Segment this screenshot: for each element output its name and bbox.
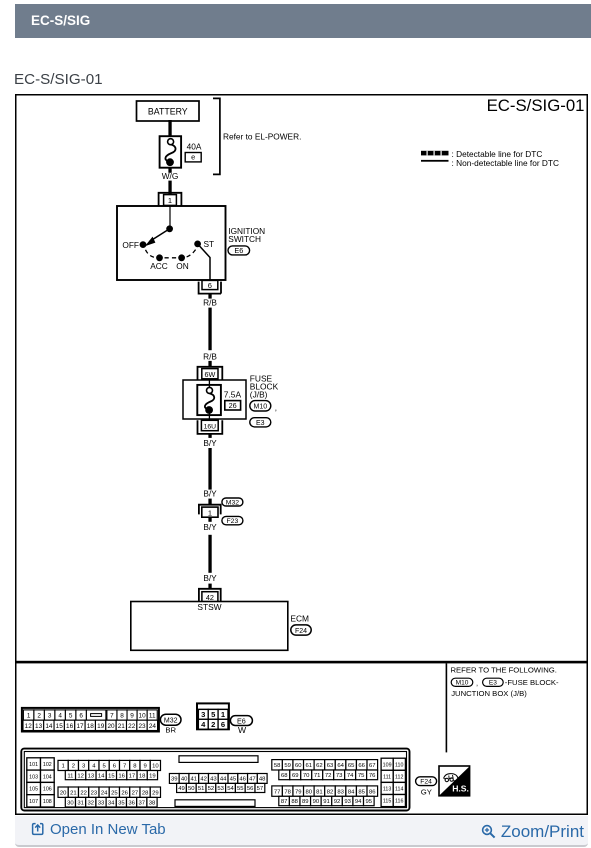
svg-text:46: 46 xyxy=(239,777,246,783)
svg-text:30: 30 xyxy=(67,800,74,806)
svg-text:69: 69 xyxy=(292,773,299,779)
svg-text:13: 13 xyxy=(88,773,95,779)
svg-text:1: 1 xyxy=(208,508,212,517)
wire stub R/B to 6W xyxy=(208,361,211,367)
svg-text:57: 57 xyxy=(257,786,264,792)
svg-text:B/Y: B/Y xyxy=(203,522,217,532)
svg-text:87: 87 xyxy=(281,799,288,805)
svg-text:M32: M32 xyxy=(164,718,178,725)
svg-text:76: 76 xyxy=(369,773,376,779)
connector pin 6 (ignition switch bottom) xyxy=(199,280,221,293)
svg-text:85: 85 xyxy=(358,789,365,795)
svg-text:9: 9 xyxy=(143,764,146,770)
svg-text:18: 18 xyxy=(139,773,146,779)
svg-text:43: 43 xyxy=(210,777,217,783)
svg-text:2: 2 xyxy=(37,713,41,720)
svg-text:16: 16 xyxy=(118,773,125,779)
svg-text:E3: E3 xyxy=(256,420,265,427)
svg-text:SWITCH: SWITCH xyxy=(228,234,261,244)
ECM box xyxy=(131,602,288,651)
svg-text:6: 6 xyxy=(208,281,212,290)
svg-text:75: 75 xyxy=(358,773,365,779)
svg-text:32: 32 xyxy=(88,800,95,806)
svg-text:45: 45 xyxy=(230,777,237,783)
svg-text:1: 1 xyxy=(168,196,172,205)
svg-text:47: 47 xyxy=(249,777,256,783)
contact ST xyxy=(194,241,201,248)
F24 pins 20-38 xyxy=(58,787,68,797)
connector id oval E6 (grid) xyxy=(230,716,252,726)
svg-text:40A: 40A xyxy=(187,141,202,151)
svg-text:50: 50 xyxy=(188,786,195,792)
inline connector pin 1 M32/F23 xyxy=(199,505,221,518)
wire B/Y vertical xyxy=(208,448,211,490)
svg-text:B/Y: B/Y xyxy=(203,489,217,499)
connector pin 6W (fuse block top) xyxy=(198,367,223,380)
connector id oval E3 xyxy=(250,418,271,427)
svg-text:67: 67 xyxy=(369,763,376,769)
svg-text:64: 64 xyxy=(337,763,344,769)
fuse number 26 xyxy=(225,401,241,411)
svg-text:112: 112 xyxy=(395,775,403,781)
svg-text:20: 20 xyxy=(107,723,115,730)
svg-text:2: 2 xyxy=(72,764,75,770)
svg-text:6: 6 xyxy=(79,713,83,720)
wire stub B/Y to pin 42 xyxy=(208,584,211,589)
svg-text:26: 26 xyxy=(121,790,128,796)
ignition switch S1 box xyxy=(117,206,226,280)
svg-text:40: 40 xyxy=(181,777,188,783)
svg-text:16U: 16U xyxy=(204,424,217,431)
svg-text:R/B: R/B xyxy=(203,297,217,307)
svg-text:19: 19 xyxy=(97,723,105,730)
svg-text:35: 35 xyxy=(118,800,125,806)
svg-text:42: 42 xyxy=(206,593,214,602)
svg-text:71: 71 xyxy=(314,773,321,779)
svg-text:80: 80 xyxy=(306,789,313,795)
svg-text:29: 29 xyxy=(152,790,159,796)
svg-text:23: 23 xyxy=(138,723,146,730)
F24 pins 1-19 xyxy=(58,760,68,770)
svg-text:94: 94 xyxy=(355,799,362,805)
svg-text:2: 2 xyxy=(211,720,215,729)
svg-text:11: 11 xyxy=(67,773,73,779)
fuse slot label e xyxy=(185,153,201,162)
svg-text:25: 25 xyxy=(111,790,118,796)
svg-text:116: 116 xyxy=(395,799,403,805)
svg-text:52: 52 xyxy=(208,786,215,792)
svg-text:24: 24 xyxy=(101,790,108,796)
svg-text:W: W xyxy=(238,725,247,735)
connector id oval M32 xyxy=(222,498,243,506)
svg-text:104: 104 xyxy=(43,774,52,780)
svg-text:103: 103 xyxy=(29,774,38,780)
svg-text:7: 7 xyxy=(110,713,114,720)
svg-text:109: 109 xyxy=(383,762,392,768)
F24 pins 77-95 xyxy=(272,786,283,796)
svg-text:90: 90 xyxy=(313,799,320,805)
svg-text:89: 89 xyxy=(302,799,309,805)
zoom/print link xyxy=(481,822,584,842)
svg-text:8: 8 xyxy=(120,713,124,720)
svg-text:F24: F24 xyxy=(295,628,307,635)
connector view E6 pin grid xyxy=(197,703,229,729)
svg-text:7: 7 xyxy=(123,764,126,770)
wire W/G to ignition switch xyxy=(168,167,171,173)
svg-text:20: 20 xyxy=(60,790,67,796)
svg-text:107: 107 xyxy=(29,799,38,805)
svg-text:83: 83 xyxy=(337,789,344,795)
svg-text:28: 28 xyxy=(142,790,149,796)
svg-text:92: 92 xyxy=(334,799,341,805)
svg-text:E6: E6 xyxy=(234,246,243,255)
svg-text:14: 14 xyxy=(98,773,105,779)
svg-text:56: 56 xyxy=(247,786,254,792)
svg-text:113: 113 xyxy=(383,787,391,793)
svg-text:91: 91 xyxy=(323,799,330,805)
svg-text:15: 15 xyxy=(56,723,64,730)
svg-text:101: 101 xyxy=(29,762,38,768)
svg-text:4: 4 xyxy=(58,713,62,720)
svg-text:115: 115 xyxy=(383,799,391,805)
svg-text:26: 26 xyxy=(229,401,237,410)
legend: non-detectable line for DTC xyxy=(421,158,559,168)
svg-text:ON: ON xyxy=(176,261,188,271)
svg-text:31: 31 xyxy=(77,800,84,806)
svg-text:84: 84 xyxy=(348,789,355,795)
svg-text:33: 33 xyxy=(98,800,105,806)
svg-text:E3: E3 xyxy=(489,680,497,687)
svg-text:66: 66 xyxy=(358,763,365,769)
svg-text:105: 105 xyxy=(29,787,38,793)
svg-text:OFF: OFF xyxy=(122,240,139,250)
svg-text:79: 79 xyxy=(295,789,302,795)
svg-text:61: 61 xyxy=(306,763,313,769)
dashed travel arc OFF-ACC-ON-ST xyxy=(146,248,197,258)
connector id oval E6 xyxy=(228,246,250,255)
page header bar EC-S/SIG xyxy=(15,4,591,38)
svg-text:37: 37 xyxy=(139,800,146,806)
svg-text:13: 13 xyxy=(35,723,43,730)
wire stub B/Y to inline connector xyxy=(208,499,211,505)
svg-text:23: 23 xyxy=(91,790,98,796)
legend: detectable line for DTC xyxy=(421,149,542,159)
open in new tab link xyxy=(31,821,166,838)
wire R/B vertical xyxy=(208,308,211,351)
svg-text:78: 78 xyxy=(284,789,291,795)
connector view F24 ECM pin grid xyxy=(21,749,409,811)
svg-text:27: 27 xyxy=(132,790,139,796)
svg-text:3: 3 xyxy=(201,710,205,719)
svg-text:-FUSE BLOCK-: -FUSE BLOCK- xyxy=(505,678,559,687)
wire stub 16U to B/Y xyxy=(208,434,211,438)
svg-text:14: 14 xyxy=(45,723,53,730)
svg-text:ST: ST xyxy=(204,239,215,249)
svg-text:59: 59 xyxy=(284,763,291,769)
separator line xyxy=(15,661,588,664)
footer link bar xyxy=(15,816,588,847)
svg-text:GY: GY xyxy=(421,787,432,796)
svg-text:BATTERY: BATTERY xyxy=(148,106,188,116)
svg-text:EC-S/SIG-01: EC-S/SIG-01 xyxy=(487,96,585,115)
svg-text:42: 42 xyxy=(200,777,207,783)
contact ACC xyxy=(156,254,163,261)
svg-text:44: 44 xyxy=(220,777,227,783)
svg-text:5: 5 xyxy=(69,713,73,720)
svg-text:95: 95 xyxy=(366,799,373,805)
svg-text:88: 88 xyxy=(291,799,298,805)
svg-text:65: 65 xyxy=(348,763,355,769)
svg-text:R/B: R/B xyxy=(203,351,217,361)
fusible link 40A e xyxy=(160,136,182,168)
connector pin 16U (fuse block bottom) xyxy=(198,420,223,434)
svg-text:34: 34 xyxy=(108,800,115,806)
svg-text:17: 17 xyxy=(76,723,84,730)
svg-text:41: 41 xyxy=(191,777,198,783)
svg-text:,: , xyxy=(275,404,277,413)
svg-text:22: 22 xyxy=(128,723,136,730)
switch common contact xyxy=(166,225,173,232)
contact OFF xyxy=(140,241,147,248)
svg-text:: Non-detectable line for DTC: : Non-detectable line for DTC xyxy=(452,158,559,168)
svg-text:60: 60 xyxy=(295,763,302,769)
connector id oval F24 xyxy=(291,625,311,635)
connector view M32 pin grid xyxy=(22,708,159,732)
svg-text:BR: BR xyxy=(165,725,176,734)
svg-text:JUNCTION BOX (J/B): JUNCTION BOX (J/B) xyxy=(451,689,527,698)
wire stub pin6 to R/B xyxy=(208,294,211,299)
svg-text:24: 24 xyxy=(149,723,157,730)
svg-text:STSW: STSW xyxy=(197,602,221,612)
svg-text:e: e xyxy=(191,153,195,162)
svg-text:114: 114 xyxy=(395,787,403,793)
svg-text:82: 82 xyxy=(327,789,334,795)
svg-text:38: 38 xyxy=(149,800,156,806)
connector id oval M10 xyxy=(250,401,271,411)
wire battery to fusible link (W/G) xyxy=(168,120,171,137)
svg-text:36: 36 xyxy=(128,800,135,806)
svg-text:18: 18 xyxy=(87,723,95,730)
svg-text:49: 49 xyxy=(178,786,185,792)
svg-text:77: 77 xyxy=(274,789,281,795)
svg-text:62: 62 xyxy=(316,763,323,769)
svg-text:1: 1 xyxy=(61,764,64,770)
bracket: refer to EL-POWER xyxy=(213,98,220,174)
note oval E3 xyxy=(483,678,504,687)
svg-text:3: 3 xyxy=(48,713,52,720)
svg-text:19: 19 xyxy=(149,773,156,779)
fuse block (J/B) box xyxy=(183,380,246,419)
svg-text:21: 21 xyxy=(118,723,126,730)
connector pin 42 (ECM) xyxy=(199,589,221,602)
svg-text:86: 86 xyxy=(369,789,376,795)
svg-text:17: 17 xyxy=(129,773,136,779)
svg-text:(J/B): (J/B) xyxy=(250,389,268,399)
svg-text:48: 48 xyxy=(259,777,266,783)
connector id oval F23 xyxy=(222,516,243,525)
svg-text:58: 58 xyxy=(274,763,281,769)
svg-text:106: 106 xyxy=(43,787,52,793)
svg-text:108: 108 xyxy=(43,799,52,805)
svg-text:53: 53 xyxy=(217,786,224,792)
contact ON xyxy=(178,254,185,261)
svg-text:110: 110 xyxy=(395,762,403,768)
F24 pins 39-57 xyxy=(169,774,179,784)
H.S. harness-side view icon xyxy=(439,766,470,796)
svg-text:102: 102 xyxy=(43,762,52,768)
note oval M10 xyxy=(451,678,473,687)
wire: pin1 lead into switch xyxy=(169,206,171,226)
svg-text:73: 73 xyxy=(336,773,343,779)
F24 pins 58-76 xyxy=(272,760,283,770)
svg-text:F24: F24 xyxy=(420,779,432,786)
svg-text:B/Y: B/Y xyxy=(203,573,217,583)
svg-text:,: , xyxy=(476,679,478,688)
connector id oval M32 (grid) xyxy=(160,714,181,725)
svg-text:Refer to EL-POWER.: Refer to EL-POWER. xyxy=(223,132,301,142)
svg-text:111: 111 xyxy=(383,775,391,781)
svg-text:B/Y: B/Y xyxy=(203,438,217,448)
connector id oval F24 (grid) xyxy=(416,777,437,786)
svg-text:55: 55 xyxy=(237,786,244,792)
svg-text:12: 12 xyxy=(25,723,33,730)
wire B/Y vertical to ECM xyxy=(208,535,211,573)
section heading EC-S/SIG-01 xyxy=(14,71,103,88)
svg-text:F23: F23 xyxy=(227,518,239,525)
svg-text:REFER TO THE FOLLOWING.: REFER TO THE FOLLOWING. xyxy=(451,665,557,674)
svg-text:70: 70 xyxy=(303,773,310,779)
svg-text:10: 10 xyxy=(139,713,147,720)
svg-text:9: 9 xyxy=(130,713,134,720)
svg-text:M10: M10 xyxy=(253,404,267,411)
connector pin 1 (ignition switch top) xyxy=(159,193,182,206)
fuse 7.5A symbol xyxy=(197,379,221,421)
svg-text:93: 93 xyxy=(344,799,351,805)
battery B1 xyxy=(137,101,200,121)
svg-text:1: 1 xyxy=(27,713,31,720)
wire stub below inline connector xyxy=(208,517,211,522)
svg-text:M32: M32 xyxy=(226,499,239,506)
svg-text:39: 39 xyxy=(171,777,178,783)
svg-text:M10: M10 xyxy=(456,680,469,687)
vertical divider line xyxy=(446,663,448,752)
svg-text:ACC: ACC xyxy=(150,261,168,271)
svg-text:63: 63 xyxy=(327,763,334,769)
svg-text:11: 11 xyxy=(149,713,156,720)
wire ST to pin 6 xyxy=(198,244,210,280)
svg-text:16: 16 xyxy=(66,723,74,730)
svg-text:22: 22 xyxy=(80,790,87,796)
svg-text:15: 15 xyxy=(108,773,115,779)
svg-text:74: 74 xyxy=(347,773,354,779)
svg-text:6: 6 xyxy=(221,720,225,729)
switch wiper arrow to OFF xyxy=(150,229,170,242)
svg-text:72: 72 xyxy=(325,773,332,779)
svg-text:7.5A: 7.5A xyxy=(224,390,242,400)
svg-text:54: 54 xyxy=(227,786,234,792)
svg-text:12: 12 xyxy=(77,773,84,779)
svg-text:51: 51 xyxy=(198,786,205,792)
svg-text:21: 21 xyxy=(70,790,77,796)
svg-text:ECM: ECM xyxy=(290,613,309,623)
svg-text:68: 68 xyxy=(281,773,288,779)
svg-text:81: 81 xyxy=(316,789,323,795)
svg-text:10: 10 xyxy=(152,764,159,770)
svg-text:H.S.: H.S. xyxy=(452,783,469,793)
svg-text:6W: 6W xyxy=(205,370,216,379)
